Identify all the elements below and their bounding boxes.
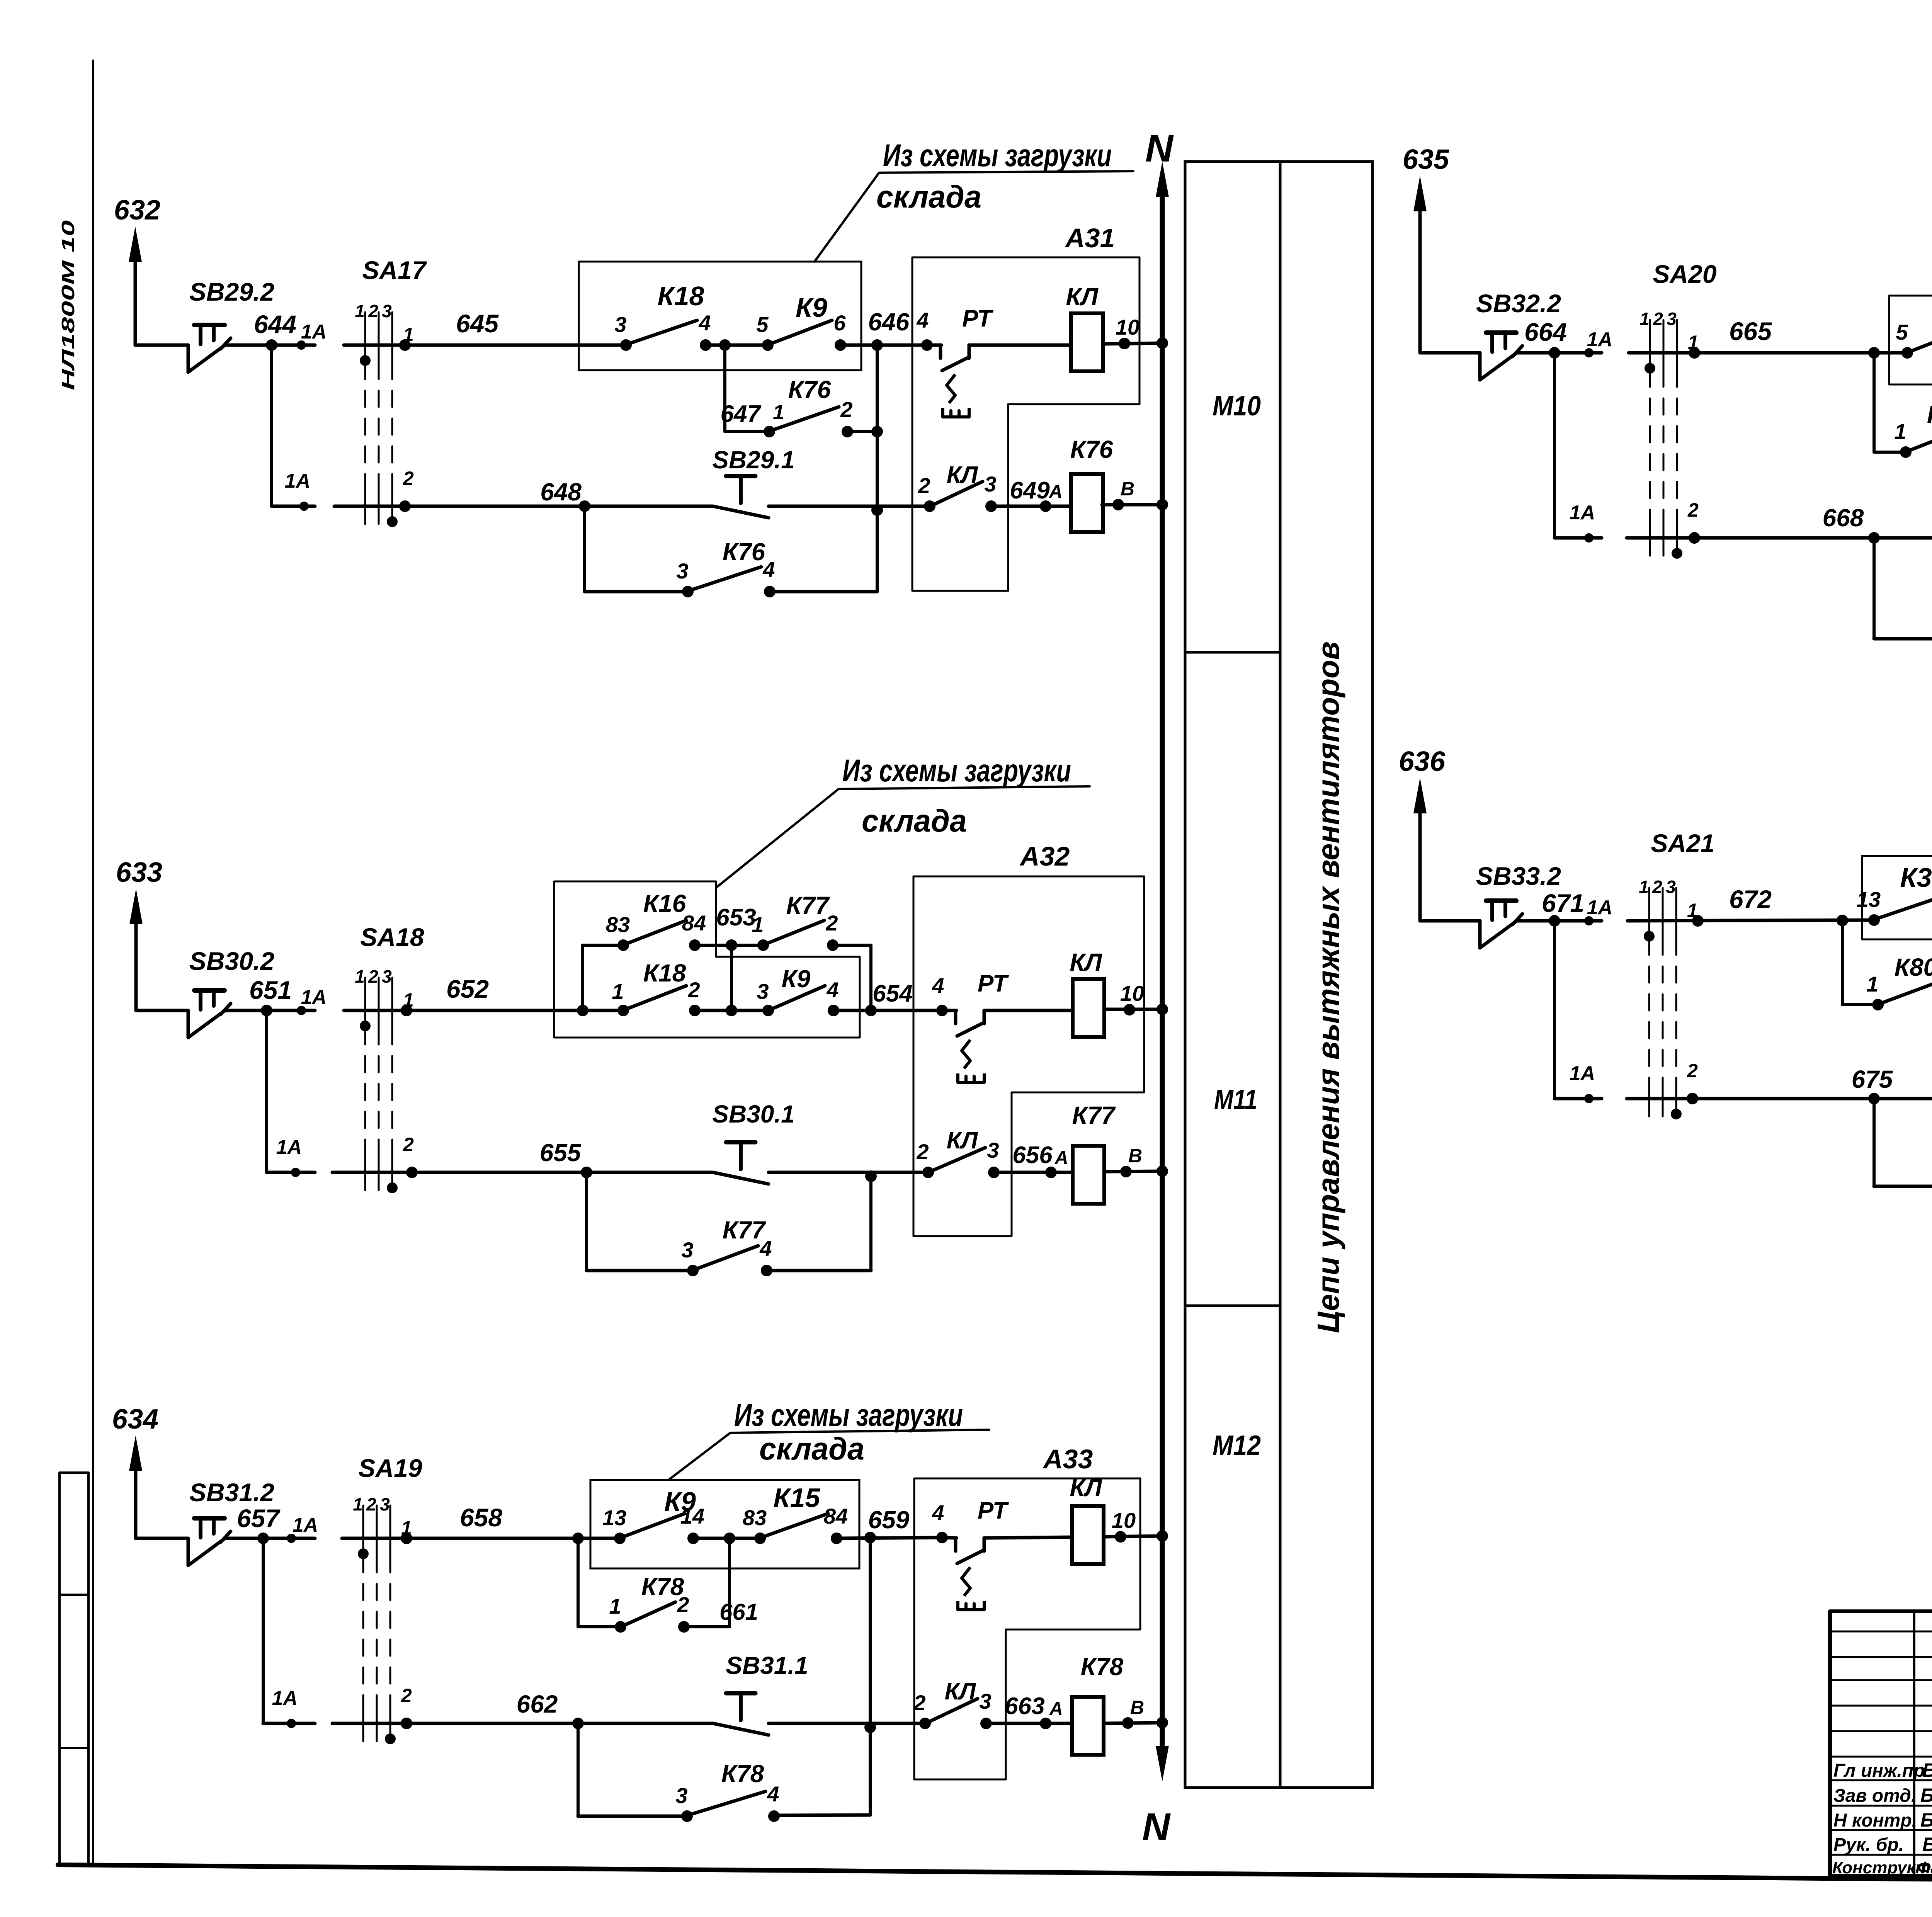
svg-text:К9: К9 <box>796 293 827 323</box>
svg-text:10: 10 <box>1116 315 1139 339</box>
node 1 / wire 672 <box>1628 920 1874 921</box>
svg-text:1А: 1А <box>293 1514 318 1536</box>
svg-text:3: 3 <box>757 979 769 1004</box>
svg-text:84: 84 <box>682 911 706 935</box>
node 657 <box>257 1533 269 1544</box>
contact box K16/K18/K9 <box>554 881 860 1038</box>
bypass contact K80 (3-4) <box>1872 1099 1876 1186</box>
svg-text:Бурман: Бурман <box>1920 1809 1932 1831</box>
svg-text:659: 659 <box>868 1506 910 1534</box>
pushbutton SB30.2 <box>187 1010 190 1038</box>
svg-text:1: 1 <box>612 979 624 1004</box>
svg-text:К38: К38 <box>1900 862 1932 893</box>
svg-text:А: А <box>1049 1699 1063 1719</box>
svg-text:4: 4 <box>698 311 711 335</box>
branch 647: vertical from rail <box>723 345 726 432</box>
svg-text:644: 644 <box>254 310 296 338</box>
row2 wire 648 <box>334 505 713 508</box>
svg-text:4: 4 <box>932 1500 944 1525</box>
svg-text:3: 3 <box>675 1783 687 1808</box>
svg-text:5: 5 <box>1896 320 1908 344</box>
svg-text:РТ: РТ <box>978 970 1009 997</box>
node B / wire to N <box>1102 503 1162 507</box>
svg-text:4: 4 <box>826 978 838 1002</box>
svg-text:К18: К18 <box>643 959 686 987</box>
svg-text:Конструкт: Конструкт <box>1832 1858 1930 1877</box>
svg-text:К76: К76 <box>788 376 831 403</box>
svg-text:663: 663 <box>1005 1693 1044 1720</box>
node 4 input A32 <box>936 1005 948 1016</box>
svg-text:Из схемы загрузки: Из схемы загрузки <box>842 753 1071 788</box>
svg-text:668: 668 <box>1823 504 1864 532</box>
svg-text:Гл инж.пр: Гл инж.пр <box>1833 1761 1925 1781</box>
svg-text:N: N <box>1142 1805 1171 1849</box>
row2 terminal 1A <box>267 1171 315 1174</box>
node 671 <box>1549 915 1560 927</box>
svg-text:2: 2 <box>916 1140 929 1164</box>
svg-text:2: 2 <box>1652 877 1662 897</box>
svg-text:3: 3 <box>979 1689 991 1713</box>
junction to K80 branch <box>1837 915 1848 926</box>
node 646 <box>840 344 927 347</box>
svg-text:Волк: Волк <box>1922 1834 1932 1855</box>
svg-text:635: 635 <box>1403 144 1449 175</box>
svg-text:SA21: SA21 <box>1651 829 1714 857</box>
svg-text:Волк: Волк <box>1922 1759 1932 1781</box>
vertical 659 down <box>869 1538 872 1815</box>
node 654 <box>833 1009 942 1012</box>
wire 663 node A <box>986 1722 1073 1725</box>
node 644 <box>266 339 277 351</box>
svg-text:3: 3 <box>382 301 392 321</box>
svg-text:А: А <box>1049 481 1063 502</box>
node B / wire to N <box>1104 1723 1162 1723</box>
svg-text:2: 2 <box>1687 499 1699 521</box>
svg-text:SA18: SA18 <box>360 923 424 951</box>
bypass contact K76 (3-4) <box>583 506 586 592</box>
svg-text:2: 2 <box>913 1691 925 1715</box>
svg-text:3: 3 <box>614 312 626 337</box>
svg-text:632: 632 <box>114 195 160 226</box>
svg-text:SB30.2: SB30.2 <box>189 947 274 975</box>
relay unit A31 box <box>912 257 1139 591</box>
svg-text:N: N <box>1145 127 1174 170</box>
svg-text:Рук. бр.: Рук. бр. <box>1833 1835 1904 1855</box>
svg-text:А32: А32 <box>1019 841 1070 871</box>
svg-text:2: 2 <box>1687 1060 1698 1082</box>
svg-text:М12: М12 <box>1213 1430 1261 1461</box>
node 1 / wire 645 <box>344 344 626 347</box>
svg-text:В: В <box>1121 478 1134 500</box>
svg-text:4: 4 <box>762 557 775 582</box>
svg-text:646: 646 <box>868 308 910 336</box>
svg-text:2: 2 <box>368 301 378 321</box>
terminal 1A <box>1584 916 1594 925</box>
svg-text:SB30.1: SB30.1 <box>712 1100 794 1128</box>
svg-text:SB29.2: SB29.2 <box>189 277 274 306</box>
svg-text:1: 1 <box>1894 419 1906 444</box>
relay unit A32 box <box>913 876 1144 1236</box>
row2 wire to KL contact <box>769 1722 925 1725</box>
svg-text:SB31.1: SB31.1 <box>726 1652 808 1679</box>
wire 656 node A <box>994 1171 1074 1174</box>
svg-text:83: 83 <box>606 912 630 937</box>
svg-text:3: 3 <box>380 1494 390 1514</box>
motor column M10-M12 <box>1185 162 1372 1788</box>
contact K76 (1-2) wire 647 <box>725 430 769 433</box>
title block outer <box>1830 1611 1932 1876</box>
node 1 / wire 652 <box>344 1009 623 1012</box>
svg-text:К15: К15 <box>774 1483 821 1513</box>
node 10 / wire to N <box>1104 1536 1162 1537</box>
svg-text:661: 661 <box>719 1599 758 1625</box>
svg-text:658: 658 <box>460 1503 502 1532</box>
svg-text:4: 4 <box>916 308 929 332</box>
svg-text:636: 636 <box>1399 746 1446 777</box>
svg-text:Из схемы загрузки: Из схемы загрузки <box>734 1398 963 1433</box>
N bus left <box>1160 183 1165 345</box>
svg-text:РТ: РТ <box>962 305 994 332</box>
svg-text:6: 6 <box>833 311 846 335</box>
node 1 / wire 665 <box>1629 351 1907 355</box>
wire 649 node A <box>991 505 1072 508</box>
sheet left border <box>92 61 94 1866</box>
svg-text:Зав отд.: Зав отд. <box>1833 1786 1916 1806</box>
svg-text:2: 2 <box>368 966 378 987</box>
svg-text:Фактурович: Фактурович <box>1917 1858 1932 1877</box>
svg-text:К16: К16 <box>643 890 686 917</box>
svg-text:склада: склада <box>876 179 981 214</box>
svg-text:83: 83 <box>743 1505 767 1530</box>
wire 635 with arrow <box>1418 197 1422 353</box>
svg-text:К18: К18 <box>658 281 704 311</box>
node 659 <box>837 1538 942 1538</box>
svg-text:1А: 1А <box>1587 328 1612 351</box>
svg-text:Из схемы загрузки: Из схемы загрузки <box>883 138 1112 173</box>
node B / wire to N <box>1104 1171 1162 1172</box>
row2 wire 662 <box>332 1722 713 1725</box>
svg-text:1А: 1А <box>272 1687 298 1709</box>
svg-text:2: 2 <box>687 978 700 1002</box>
relay unit A33 box <box>914 1478 1140 1779</box>
svg-text:634: 634 <box>112 1404 158 1435</box>
contact box K38/K42/K44 <box>1889 296 1932 474</box>
svg-text:SB29.1: SB29.1 <box>712 446 794 474</box>
svg-text:3: 3 <box>1666 877 1676 897</box>
row2 wire to KL contact <box>769 505 930 508</box>
svg-text:1: 1 <box>355 301 365 321</box>
svg-text:2: 2 <box>825 911 838 935</box>
svg-text:Бельфор: Бельфор <box>1920 1784 1932 1806</box>
svg-text:13: 13 <box>602 1505 626 1530</box>
row2: vertical from 671 <box>1553 921 1556 1099</box>
svg-text:1: 1 <box>353 1494 363 1514</box>
svg-text:1: 1 <box>752 912 764 937</box>
node 653 <box>695 944 763 947</box>
branch K78 (1-2) wire 661 <box>577 1538 580 1627</box>
svg-text:3: 3 <box>987 1138 999 1162</box>
svg-text:КЛ: КЛ <box>1070 1474 1102 1502</box>
pushbutton SB29.2 <box>187 345 190 372</box>
svg-text:1А: 1А <box>1570 1062 1595 1085</box>
bypass contact K77 (3-4) <box>585 1172 588 1271</box>
svg-text:1А: 1А <box>285 470 310 492</box>
terminal 1A <box>287 1534 296 1543</box>
svg-text:2: 2 <box>401 1685 412 1706</box>
svg-text:3: 3 <box>1667 309 1677 329</box>
svg-text:НЛ1800М 10: НЛ1800М 10 <box>58 220 78 390</box>
svg-text:657: 657 <box>237 1504 281 1533</box>
svg-text:КЛ: КЛ <box>1070 948 1102 976</box>
svg-text:665: 665 <box>1729 317 1772 345</box>
svg-text:2: 2 <box>366 1494 376 1514</box>
svg-text:3: 3 <box>676 559 688 583</box>
pushbutton SB33.2 <box>1478 921 1482 948</box>
svg-text:655: 655 <box>540 1139 582 1167</box>
svg-text:84: 84 <box>824 1504 848 1528</box>
node 651 <box>261 1005 272 1016</box>
svg-text:Цепи управления вытяжных венти: Цепи управления вытяжных вентиляторов <box>1311 641 1345 1333</box>
svg-text:664: 664 <box>1524 318 1567 346</box>
svg-text:А33: А33 <box>1043 1444 1093 1474</box>
svg-text:662: 662 <box>517 1690 558 1718</box>
svg-text:10: 10 <box>1120 981 1144 1005</box>
svg-text:Н контр.: Н контр. <box>1833 1810 1917 1831</box>
svg-text:SB33.2: SB33.2 <box>1476 862 1561 890</box>
svg-text:2: 2 <box>677 1592 689 1617</box>
svg-text:4: 4 <box>767 1782 779 1806</box>
svg-text:671: 671 <box>1542 889 1584 917</box>
row2 terminal 1A <box>1554 1097 1602 1101</box>
svg-text:652: 652 <box>446 975 489 1003</box>
wire 632 with arrow <box>134 248 137 345</box>
sheet bottom border <box>58 1865 1932 1885</box>
row2 terminal 1A <box>1554 536 1602 540</box>
svg-text:2: 2 <box>403 468 414 489</box>
svg-text:2: 2 <box>403 1134 414 1155</box>
svg-text:М10: М10 <box>1213 391 1261 422</box>
svg-text:КЛ: КЛ <box>1066 283 1099 311</box>
contact K16 (83-84) <box>583 944 623 947</box>
subrow: vertical to K16 <box>581 945 584 1010</box>
row2 terminal 1A <box>272 505 315 508</box>
svg-text:1: 1 <box>773 401 784 424</box>
svg-text:1: 1 <box>1639 309 1650 329</box>
svg-text:склада: склада <box>759 1431 864 1466</box>
svg-text:SA19: SA19 <box>358 1454 422 1482</box>
svg-text:654: 654 <box>872 980 912 1007</box>
svg-text:4: 4 <box>932 973 944 998</box>
svg-text:К76: К76 <box>1070 435 1113 463</box>
svg-text:К77: К77 <box>1072 1101 1116 1129</box>
row2: vertical from 664 <box>1553 353 1556 538</box>
row2 wire 655 <box>332 1171 713 1174</box>
terminal 1A <box>1584 348 1594 357</box>
svg-text:К78: К78 <box>1081 1653 1124 1681</box>
svg-text:1: 1 <box>609 1594 621 1618</box>
wire <box>226 344 315 347</box>
svg-text:633: 633 <box>116 857 162 888</box>
svg-text:SB31.2: SB31.2 <box>189 1478 274 1507</box>
svg-text:РТ: РТ <box>978 1497 1009 1524</box>
vertical 653->rail <box>730 945 733 1010</box>
row2 wire to KL contact <box>769 1171 928 1174</box>
svg-text:13: 13 <box>1857 887 1881 912</box>
svg-text:КЛ: КЛ <box>947 1127 978 1154</box>
svg-text:4: 4 <box>759 1236 772 1260</box>
svg-text:3: 3 <box>382 966 392 987</box>
contact box K9/K15 <box>590 1480 859 1568</box>
svg-text:2: 2 <box>1653 309 1663 329</box>
wire / junction to 647 <box>706 344 768 347</box>
svg-text:1А: 1А <box>276 1136 302 1158</box>
node 4 input A33 <box>936 1532 948 1543</box>
svg-text:К80: К80 <box>1895 953 1932 981</box>
wire rail 644-645-646 block1 <box>135 344 188 347</box>
svg-text:645: 645 <box>456 309 499 338</box>
junction on N bus <box>1156 337 1168 349</box>
left margin attachment strip <box>60 1473 88 1865</box>
signature grid <box>1830 1631 1932 1633</box>
svg-text:1А: 1А <box>1587 896 1612 919</box>
row2: vertical from 651 <box>265 1010 268 1172</box>
svg-text:К9: К9 <box>782 965 811 993</box>
svg-text:SA17: SA17 <box>362 256 427 284</box>
junction to K78 branch <box>572 1533 584 1544</box>
svg-text:1А: 1А <box>301 321 327 343</box>
svg-text:653: 653 <box>716 904 756 931</box>
svg-text:1А: 1А <box>301 986 327 1009</box>
svg-text:2: 2 <box>840 397 852 422</box>
svg-text:648: 648 <box>540 478 582 506</box>
svg-text:14: 14 <box>680 1504 704 1528</box>
row2 wire 668 <box>1627 536 1932 540</box>
svg-text:SA20: SA20 <box>1653 260 1716 288</box>
vertical 646 down <box>876 345 879 592</box>
bypass contact K79 (3-4) <box>1872 538 1876 639</box>
terminal 1A <box>297 1006 306 1015</box>
node 10 / wire to N <box>1103 343 1162 344</box>
contact box K18/K9 <box>579 262 861 370</box>
node 664 <box>1549 347 1560 359</box>
terminal 1A <box>297 340 306 350</box>
svg-text:А31: А31 <box>1065 223 1115 253</box>
svg-text:1: 1 <box>1866 972 1878 996</box>
svg-text:3: 3 <box>681 1238 693 1262</box>
svg-text:К79: К79 <box>1927 401 1932 429</box>
node 10 / wire to N <box>1104 1008 1162 1011</box>
svg-text:В: В <box>1130 1697 1144 1718</box>
svg-text:К78: К78 <box>721 1760 764 1788</box>
bypass contact K78 (3-4) <box>577 1723 580 1816</box>
svg-text:2: 2 <box>918 473 930 498</box>
row2: vertical from 657 <box>262 1538 265 1723</box>
svg-text:К77: К77 <box>786 891 830 919</box>
svg-text:675: 675 <box>1852 1065 1893 1093</box>
row2 terminal 1A <box>263 1722 315 1725</box>
branch K79 (1-2) wire 667 <box>1872 353 1876 452</box>
junction to K79 branch <box>1868 347 1880 359</box>
svg-text:672: 672 <box>1729 885 1772 913</box>
svg-text:1: 1 <box>355 966 365 987</box>
row2: vertical from 644 <box>270 345 273 506</box>
branch K80 (1-2) wire 674 <box>1841 920 1844 1005</box>
contact box K38/K42/K44 (block5) <box>1862 856 1932 1017</box>
svg-text:SB32.2: SB32.2 <box>1476 289 1561 318</box>
svg-text:М11: М11 <box>1214 1084 1257 1115</box>
wire 636 with arrow <box>1418 799 1422 921</box>
wire 634 with arrow <box>134 1457 138 1538</box>
svg-text:649: 649 <box>1010 477 1050 504</box>
svg-text:10: 10 <box>1112 1508 1136 1533</box>
svg-text:А: А <box>1054 1148 1068 1168</box>
svg-text:1А: 1А <box>1570 502 1595 524</box>
vertical subrow->654 <box>869 945 872 1010</box>
svg-text:склада: склада <box>862 803 967 839</box>
row2 wire 675 <box>1627 1097 1932 1101</box>
svg-text:1: 1 <box>1639 877 1649 897</box>
node 1 / wire 658 <box>342 1537 620 1540</box>
svg-text:5: 5 <box>756 312 769 337</box>
pushbutton SB32.2 <box>1478 353 1482 380</box>
svg-text:В: В <box>1128 1145 1142 1167</box>
svg-text:656: 656 <box>1012 1142 1053 1169</box>
svg-text:651: 651 <box>249 976 292 1004</box>
pushbutton SB31.2 <box>187 1538 190 1565</box>
node 4 input A31 <box>921 339 933 351</box>
svg-text:3: 3 <box>984 472 996 496</box>
svg-text:К76: К76 <box>723 538 765 566</box>
wire 633 with arrow <box>134 910 138 1010</box>
svg-text:647: 647 <box>721 401 762 427</box>
